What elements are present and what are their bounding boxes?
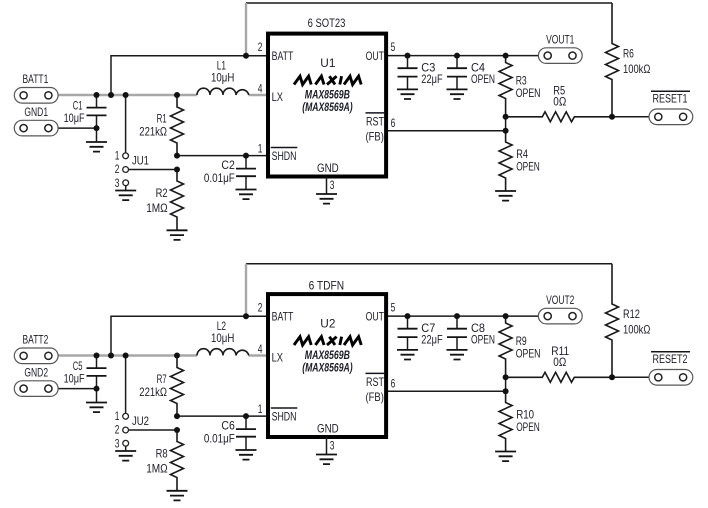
svg-text:OPEN: OPEN [471, 72, 495, 86]
wire: RST net (pin 6 to R4 top) [386, 130, 506, 132]
svg-text:22μF: 22μF [421, 72, 442, 86]
wire: battery bus right (L2 to LX pin 4) [249, 354, 268, 356]
ground at JU1 pin 3 [115, 191, 136, 201]
svg-text:3: 3 [115, 437, 120, 451]
svg-text:RESET2: RESET2 [653, 352, 688, 366]
inductor L2 10uH [197, 319, 249, 356]
svg-text:OPEN: OPEN [471, 333, 495, 347]
svg-text:1: 1 [258, 402, 263, 416]
connector VOUT1 [538, 32, 582, 63]
svg-text:LX: LX [272, 90, 283, 104]
wire: OUT net (pin 5 to VOUT2) [386, 315, 538, 317]
resistor R2 1M [146, 170, 183, 231]
wire: RST node to RESET2 connector [612, 376, 649, 378]
wire: JU2 pin 1 riser to bus [125, 356, 127, 414]
resistor R5 0ohm [506, 84, 612, 122]
svg-text:22μF: 22μF [421, 333, 442, 347]
junction dots bottom circuit [94, 353, 100, 359]
svg-text:C2: C2 [221, 158, 235, 172]
wire: top feed from BATT node to R6 [246, 2, 612, 4]
capacitor C3 22uF [398, 56, 443, 90]
ground at C7 [397, 350, 418, 360]
svg-text:VOUT2: VOUT2 [546, 293, 575, 307]
wire: R9 bottom to RST junction [505, 377, 507, 391]
svg-text:5: 5 [391, 301, 396, 315]
ground at IC pin 3 [316, 194, 337, 204]
svg-text:OPEN: OPEN [516, 159, 540, 173]
svg-text:GND: GND [317, 422, 339, 436]
ground at C6 [236, 450, 257, 460]
svg-text:1: 1 [115, 409, 120, 423]
svg-text:10μF: 10μF [64, 111, 85, 125]
capacitor C4 OPEN [447, 56, 495, 90]
svg-text:100kΩ: 100kΩ [623, 62, 650, 76]
resistor R1 221k [139, 95, 183, 156]
op-amp U1 (IC MAX8569B) box [268, 34, 386, 177]
svg-text:R1: R1 [157, 112, 167, 126]
ground at IC U2 pin 3 [316, 455, 337, 465]
wire: R3 bottom to RST junction [505, 117, 507, 131]
resistor R9 OPEN [499, 316, 540, 377]
wire: BATT pin 2 riser and horizontal to IC [111, 56, 268, 95]
wire: SHDN net (R7 bottom to IC pin 1) [177, 415, 268, 417]
wire: battery bus left (BATT1 to L1) [58, 94, 197, 96]
svg-text:RST: RST [366, 375, 385, 389]
svg-text:(FB): (FB) [366, 390, 384, 404]
svg-text:6: 6 [391, 116, 396, 130]
svg-text:3: 3 [330, 178, 335, 192]
svg-text:4: 4 [258, 342, 263, 356]
svg-text:4: 4 [258, 82, 263, 96]
svg-text:6 TDFN: 6 TDFN [309, 279, 345, 293]
wire: bottom feed from BATT node to R12 [246, 263, 612, 265]
svg-text:221kΩ: 221kΩ [139, 385, 167, 399]
connector BATT2 [14, 333, 58, 364]
resistor R10 OPEN [499, 391, 540, 451]
wire: battery bus right (L1 to LX pin 4) [249, 94, 268, 96]
ground at R2 [167, 230, 188, 240]
junction dots top circuit [94, 92, 100, 98]
svg-text:SHDN: SHDN [272, 149, 297, 163]
svg-text:RESET1: RESET1 [653, 91, 688, 105]
inductor L1 10uH [197, 59, 249, 96]
ground at C3 [397, 89, 418, 99]
wire: grey drop from feed to BATT pin 2 [245, 3, 247, 56]
ground at C1 [86, 142, 107, 152]
wire: grey drop from feed to BATT pin 2 (U2) [245, 264, 247, 316]
svg-text:3: 3 [330, 439, 335, 453]
connector VOUT2 [538, 293, 582, 324]
svg-text:10μH: 10μH [211, 71, 234, 85]
svg-text:U1: U1 [320, 56, 335, 70]
wire: RST net (pin 6 to R10 top) [386, 390, 506, 392]
connector BATT1 [14, 72, 58, 103]
wire: battery bus left (BATT2 to L2) [58, 354, 197, 356]
svg-text:(FB): (FB) [366, 129, 384, 143]
svg-text:R8: R8 [156, 447, 168, 461]
svg-text:6 SOT23: 6 SOT23 [308, 16, 346, 30]
wire: IC GND pin 3 stub [326, 177, 328, 195]
svg-text:R6: R6 [623, 47, 634, 61]
ground at C8 [447, 350, 468, 360]
svg-text:JU1: JU1 [132, 154, 149, 168]
svg-text:R7: R7 [157, 372, 167, 386]
wire: JU1 pin 1 riser to bus [125, 95, 127, 153]
svg-text:GND: GND [317, 161, 339, 175]
connector GND1 [14, 105, 58, 136]
MAXIM logo (U2) [294, 337, 361, 345]
svg-text:221kΩ: 221kΩ [139, 125, 167, 139]
svg-text:2: 2 [115, 423, 120, 437]
wire: RST node to RESET1 connector [612, 116, 649, 118]
connector RESET2 (overline) [649, 352, 693, 385]
svg-text:5: 5 [391, 40, 396, 54]
resistor R8 1M [146, 430, 183, 491]
resistor R7 221k [139, 356, 183, 417]
svg-text:U2: U2 [320, 316, 335, 330]
svg-text:OPEN: OPEN [516, 347, 541, 361]
resistor R11 0ohm [506, 344, 612, 382]
svg-text:BATT: BATT [272, 49, 294, 63]
svg-text:OUT: OUT [366, 309, 385, 323]
connector RESET1 (overline) [649, 91, 693, 124]
svg-text:RST: RST [366, 114, 385, 128]
svg-text:3: 3 [115, 176, 120, 190]
svg-text:GND2: GND2 [24, 365, 48, 379]
wire: JU2 pin 2 to R8 top [129, 429, 178, 431]
ground at C5 [86, 403, 107, 413]
resistor R4 OPEN [499, 131, 540, 191]
wire: JU1 pin 2 to R2 top [129, 169, 178, 171]
capacitor C7 22uF [398, 316, 443, 350]
capacitor C1 10uF [64, 95, 107, 142]
ground at R8 [167, 491, 188, 501]
capacitor C5 10uF [64, 356, 107, 403]
MAXIM logo [294, 76, 361, 84]
jumper JU2 [115, 409, 149, 450]
svg-text:SHDN: SHDN [272, 409, 297, 423]
wire: JU2 pin 3 to ground [125, 446, 127, 451]
resistor R6 100k [606, 3, 651, 117]
wire: BATT pin 2 riser and horizontal to IC U2 [111, 316, 268, 355]
svg-text:2: 2 [115, 162, 120, 176]
capacitor C6 0.01uF [204, 416, 256, 450]
svg-text:(MAX8569A): (MAX8569A) [302, 100, 353, 114]
svg-text:1: 1 [115, 149, 120, 163]
svg-text:GND1: GND1 [24, 105, 48, 119]
svg-text:2: 2 [258, 40, 263, 54]
svg-text:0Ω: 0Ω [553, 95, 566, 109]
svg-text:OPEN: OPEN [516, 86, 541, 100]
ground at C4 [447, 89, 468, 99]
svg-text:LX: LX [272, 350, 283, 364]
resistor R12 100k [606, 264, 651, 378]
svg-text:100kΩ: 100kΩ [623, 323, 650, 337]
connector GND2 [14, 365, 58, 396]
capacitor C2 0.01uF [204, 156, 256, 190]
svg-text:BATT1: BATT1 [23, 72, 49, 86]
svg-text:2: 2 [258, 301, 263, 315]
ground at C2 [236, 190, 257, 200]
wire: SHDN net (R1 bottom to IC pin 1) [177, 155, 268, 157]
svg-text:R12: R12 [623, 307, 640, 321]
wire: IC U2 GND pin 3 stub [326, 437, 328, 455]
ground at R10 [495, 452, 516, 462]
svg-text:10μH: 10μH [211, 331, 234, 345]
jumper JU1 [115, 149, 149, 190]
wire: JU1 pin 3 to ground [125, 186, 127, 191]
svg-text:OUT: OUT [366, 49, 385, 63]
svg-text:VOUT1: VOUT1 [546, 32, 575, 46]
svg-text:1MΩ: 1MΩ [146, 461, 168, 475]
svg-text:JU2: JU2 [132, 414, 149, 428]
op-amp U2 (IC MAX8569B) box [268, 294, 386, 437]
svg-text:OPEN: OPEN [516, 420, 540, 434]
svg-text:BATT2: BATT2 [23, 333, 49, 347]
svg-text:1MΩ: 1MΩ [146, 201, 168, 215]
wire: GND2 to C5 bottom [58, 388, 97, 390]
ground at R4 [495, 191, 516, 201]
svg-text:0.01μF: 0.01μF [204, 431, 235, 445]
svg-text:R2: R2 [156, 186, 168, 200]
capacitor C8 OPEN [447, 316, 495, 350]
ground at JU2 pin 3 [115, 451, 136, 461]
wire: OUT net (pin 5 to VOUT1) [386, 55, 538, 57]
svg-text:6: 6 [391, 376, 396, 390]
svg-text:1: 1 [258, 141, 263, 155]
wire: GND1 to C1 bottom [58, 127, 97, 129]
svg-text:C6: C6 [221, 418, 235, 432]
svg-text:0Ω: 0Ω [553, 355, 566, 369]
svg-text:BATT: BATT [272, 309, 294, 323]
resistor R3 OPEN [499, 56, 540, 117]
svg-text:0.01μF: 0.01μF [204, 171, 235, 185]
svg-text:(MAX8569A): (MAX8569A) [302, 360, 353, 374]
svg-text:10μF: 10μF [64, 372, 85, 386]
